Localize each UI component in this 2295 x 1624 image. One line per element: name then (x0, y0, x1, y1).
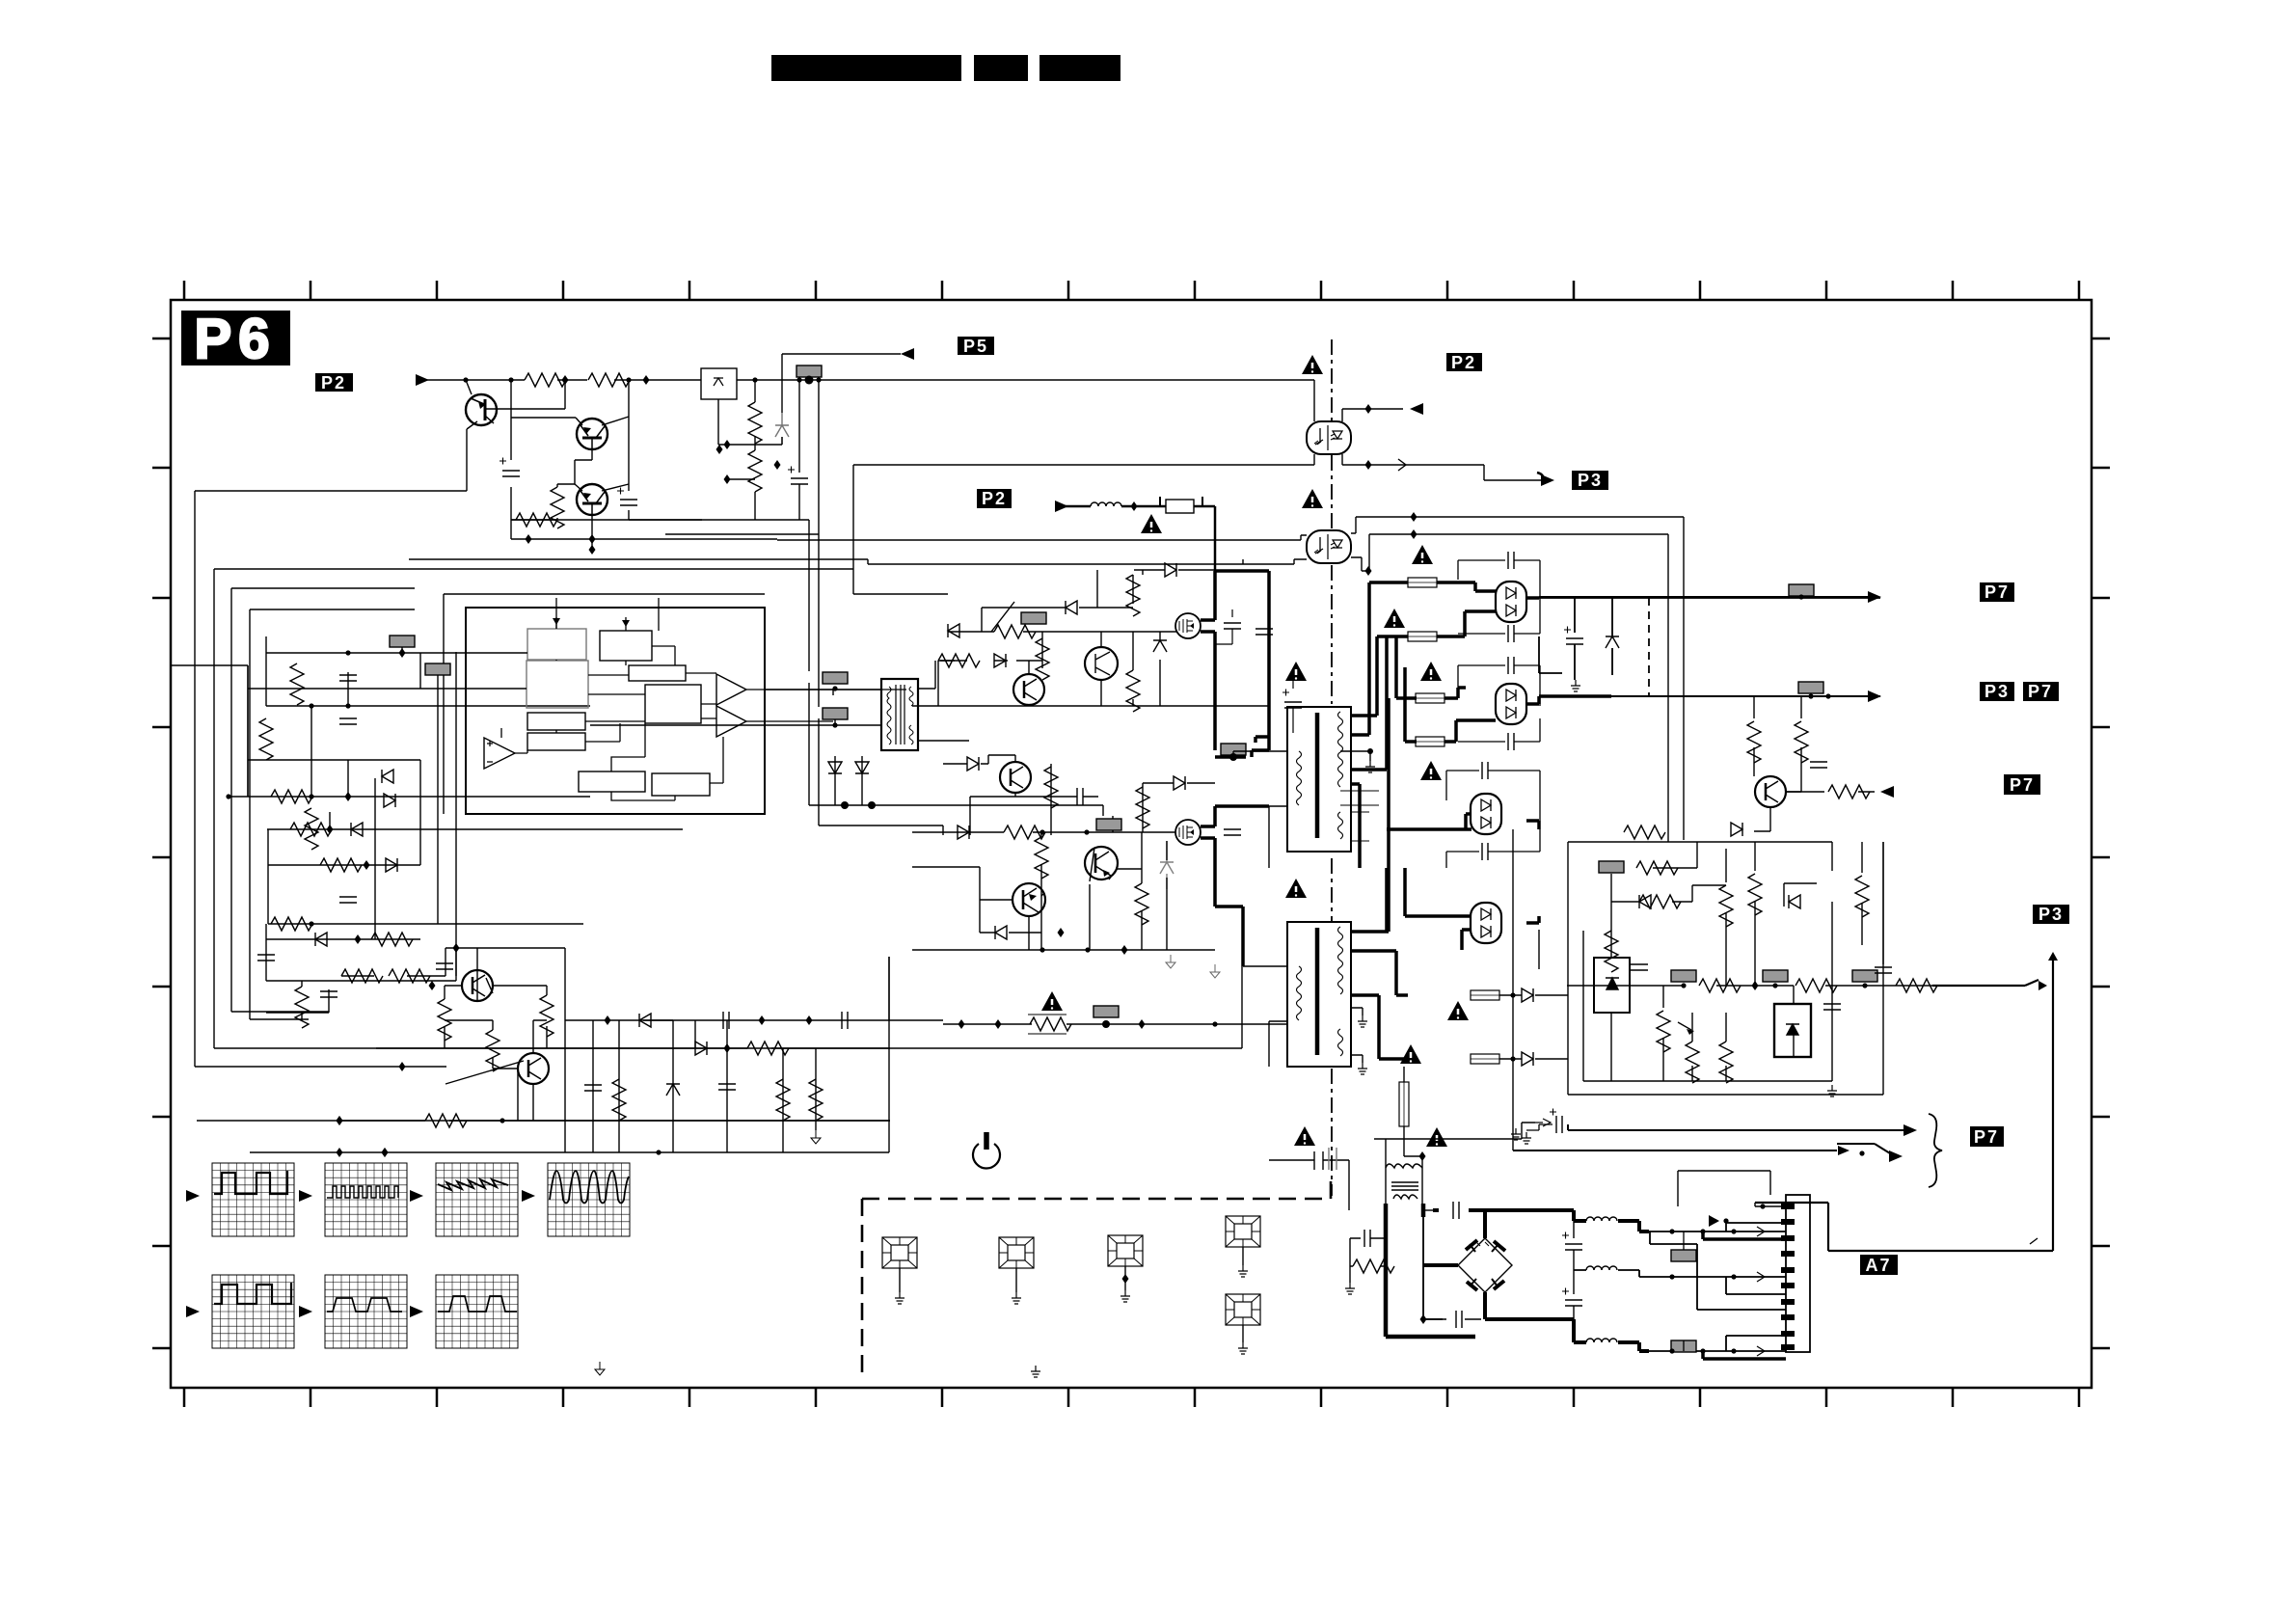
resistor R25 v (1044, 767, 1058, 808)
label P2 mid (977, 489, 1012, 508)
svg-text:P2: P2 (321, 373, 346, 392)
wire to T2 primary with fusible resistor (943, 1021, 1287, 1024)
cap C35 v (718, 1084, 736, 1090)
resistor R13 h (271, 790, 312, 803)
resistor R31 v (540, 995, 553, 1037)
svg-text:P7: P7 (2010, 775, 2035, 795)
resistor R40 v (809, 1079, 823, 1121)
lower output diodes (1499, 829, 1568, 1150)
waveform grid 1 (212, 1163, 294, 1236)
power symbol (973, 1132, 1000, 1168)
chassis Y cap + R (1350, 1238, 1386, 1283)
svg-text:P2: P2 (982, 489, 1007, 508)
diode D36 (995, 926, 1007, 939)
fuse F33 (1416, 737, 1444, 746)
gate drive upper network wires (912, 570, 1269, 706)
svg-text:P3: P3 (1578, 471, 1603, 490)
resistor R41 v (1747, 721, 1761, 763)
comparator T1 (716, 674, 746, 705)
transistor Q20 (1013, 674, 1044, 705)
svg-text:P7: P7 (1974, 1127, 1999, 1147)
resistor R35 h (389, 969, 430, 983)
resistor R39 v (776, 1079, 790, 1121)
caps and diode between rails (1566, 638, 1583, 644)
vertical x=652 (629, 380, 702, 520)
resistor R33 h (425, 1114, 467, 1127)
isolation dashed line (1331, 339, 1333, 1196)
ground symbols at transformer (1365, 761, 1375, 772)
diode D34 (1731, 823, 1742, 836)
light zener D35 (1160, 841, 1174, 889)
label P3 P7 (1980, 682, 2014, 701)
gray box G6 (823, 672, 848, 684)
resistor R23 v (1126, 575, 1140, 616)
diode D27 (967, 757, 979, 771)
dual diode U33 (1471, 903, 1501, 943)
lower drive cluster wires (912, 832, 1215, 950)
transformer T5401 (1287, 707, 1351, 852)
resistor R4 horiz (516, 513, 557, 527)
label P7 brace (1970, 1126, 2004, 1147)
cap C23 on bus (1255, 629, 1273, 635)
junction dots (309, 703, 313, 708)
fuse F31 (1408, 632, 1437, 641)
diode D22 (1066, 601, 1077, 614)
left column horizontals (229, 653, 683, 981)
label P3 lower (2033, 905, 2069, 924)
diode D31 (695, 1042, 707, 1055)
warning triangle (1041, 991, 1063, 1011)
electrolytic C24 (1284, 702, 1302, 708)
bottom bus diamonds (382, 1148, 389, 1157)
standby transformer T5403 (1386, 1164, 1422, 1204)
block b9 (652, 773, 710, 796)
spark gap SG5 (1226, 1294, 1260, 1325)
resistor R14 h (290, 823, 332, 836)
diode D26 (1165, 563, 1176, 577)
resistor R42 v (1795, 721, 1808, 763)
resistor R28 v (1035, 837, 1048, 879)
wire top pin from P3 route (1678, 1171, 1786, 1206)
inductor L51 (1586, 1266, 1617, 1270)
waveform grid 2 (325, 1163, 407, 1236)
cap + gnd before arrow (1556, 1116, 1562, 1133)
arrows inside IC (553, 618, 560, 625)
fuse F35 (1471, 1054, 1499, 1064)
optocoupler U3 (1307, 530, 1351, 563)
gray box G11 (1093, 1006, 1119, 1017)
transistor Q31 (518, 1053, 549, 1084)
transistor Q21 (1085, 647, 1118, 680)
resistor R2 (588, 373, 630, 387)
ground at regulator (1827, 1085, 1837, 1096)
brace (1929, 1114, 1942, 1187)
snubber feedback rails (341, 948, 565, 1020)
resistor R12 (305, 808, 318, 850)
spark gap SG2 (999, 1237, 1034, 1268)
waveform grid 6 (325, 1275, 407, 1348)
cap C32 light (723, 1012, 729, 1029)
block b6 (527, 713, 585, 730)
gray box F1 (796, 365, 822, 377)
opto1 wires (853, 380, 1543, 594)
block b4 (629, 665, 686, 681)
capacitor C1 (502, 471, 520, 476)
capacitor C11 (339, 718, 357, 724)
T5400 input wires (590, 661, 969, 805)
svg-text:A7: A7 (1865, 1256, 1891, 1275)
big dots on bus (841, 801, 849, 809)
transistor Q3 (577, 484, 607, 515)
resistor R11 (259, 718, 273, 760)
transistor Q1 (466, 394, 497, 425)
diode D41 (1522, 1052, 1533, 1066)
zener D32 v (666, 1084, 680, 1096)
warning triangle near fuse (1141, 514, 1162, 533)
Q2 (511, 417, 629, 484)
waveform grid 7 (436, 1275, 518, 1348)
opto2 wires (665, 517, 1684, 842)
block b3 (526, 661, 588, 708)
cap C33 (842, 1012, 848, 1029)
junction dots on rail (463, 375, 821, 484)
electrolytic C50 (1565, 1244, 1582, 1250)
resistor R37 h (747, 1042, 789, 1055)
resistor R38 v (612, 1079, 626, 1121)
bridge connections (1423, 1210, 1504, 1319)
primary connections T5401 (1233, 751, 1287, 868)
transformer T5400 (881, 679, 918, 750)
transistor Q25 (1085, 847, 1118, 880)
IC feed rectangle outer (444, 594, 765, 814)
transformer T5402 (1287, 922, 1351, 1067)
diode D33 v (1606, 636, 1619, 648)
svg-text:P6: P6 (195, 308, 277, 370)
diode D13 (386, 858, 397, 872)
caps on rectifier ellipses (1508, 552, 1514, 569)
loop wire L5 vertical from border (171, 665, 248, 797)
block b1 (527, 629, 586, 660)
svg-text:P7: P7 (2028, 682, 2053, 701)
vertical bus x=922 right edge of bottom bus (888, 957, 890, 1152)
comparator T2 (716, 706, 746, 737)
diode D24 (994, 654, 1006, 667)
resistor R34 h on y1012 (341, 969, 383, 983)
loop wire L2 (214, 569, 1242, 1048)
warning triangles (1302, 355, 1323, 374)
wire from fuse to transformer (1374, 1067, 1535, 1168)
MOSFET Q24 (1175, 820, 1201, 845)
resistor R15 h (320, 858, 362, 872)
cap C34 v (584, 1085, 602, 1091)
gray boxes (1599, 861, 1624, 873)
gray box G3 (425, 663, 450, 675)
output wires to connector (1649, 1223, 1786, 1351)
dual diode U31 (1496, 684, 1526, 724)
Y-capacitor across barrier (1269, 1148, 1349, 1210)
MOSFET Q22 (1175, 613, 1201, 638)
label P7 first (1980, 582, 2014, 602)
zener box network (718, 380, 782, 520)
diode D29 (1174, 776, 1185, 790)
cap C30 (320, 991, 337, 997)
zener box D1 (701, 368, 737, 399)
gray box G9 (1096, 819, 1121, 830)
label P3 upper (1572, 471, 1608, 490)
resistor R26 h (1004, 826, 1045, 839)
wire P5 stub (782, 353, 901, 355)
R3 link (557, 484, 575, 520)
spark gap SG1 (882, 1237, 917, 1268)
ground mid (595, 1362, 605, 1375)
thick branch stubs (1703, 1232, 1786, 1359)
loop wire L3 (231, 588, 415, 1012)
warning triangle 2 (1426, 1127, 1447, 1147)
resistor R6 vert (748, 450, 762, 492)
resistor R10 (290, 663, 304, 705)
arrow to P3 (1541, 474, 1554, 486)
long mid wires (409, 559, 868, 564)
diamonds (958, 1019, 965, 1029)
resistor R32 v (486, 1030, 499, 1071)
wire P2 to opto1 main top rail (418, 379, 1314, 381)
thin output rails (1539, 598, 1880, 696)
open grounds (1166, 955, 1175, 968)
bottom ground bus (250, 1121, 890, 1152)
block b5 (645, 685, 701, 723)
loop wire L1 (195, 491, 446, 1067)
resistor R1 (525, 373, 566, 387)
inductor L20 (1091, 502, 1121, 506)
cap C22 (1224, 829, 1241, 835)
transistor Q40 right (1755, 776, 1786, 807)
cap C40 v (1810, 762, 1827, 768)
left column verticals (248, 636, 456, 981)
resistor R36 v small (295, 987, 309, 1028)
ground bus (511, 520, 809, 539)
warning triangle (1294, 1126, 1315, 1146)
connector A7 body (1781, 1195, 1810, 1352)
svg-text:P7: P7 (1984, 582, 2010, 602)
emitter arrow (591, 539, 593, 547)
svg-text:P3: P3 (1984, 682, 2010, 701)
resistor R3 vert (551, 487, 564, 528)
resistor R16 h (271, 917, 312, 931)
resistor R21 h (938, 654, 980, 667)
transistor Q23 (1000, 762, 1031, 793)
resistor chain on P3 wire (1699, 979, 1741, 992)
MOSFET Q22 drain/source thick (1201, 571, 1246, 750)
open ground arrow (811, 1130, 821, 1144)
resistor R17 h (371, 933, 413, 946)
P7 arrow rail 2 (P3P7) (1611, 695, 1869, 697)
diode D20 vert (828, 762, 842, 773)
wires rectifier group top (1437, 582, 1611, 950)
diodes (1639, 895, 1651, 908)
dual diode U32 (1471, 794, 1501, 834)
thick standby bars (1386, 1204, 1475, 1337)
svg-text:P5: P5 (963, 337, 988, 356)
label P2 top-left (315, 373, 353, 392)
supply rail verticals to gate area (809, 588, 1103, 835)
spark gap SG4 (1226, 1216, 1260, 1247)
svg-text:P2: P2 (1451, 353, 1476, 372)
capacitor C10 (339, 675, 357, 681)
label P7 third (2004, 774, 2040, 795)
IC U10 outline (466, 608, 765, 814)
gray box G7 (823, 708, 848, 719)
ground bus diamonds (589, 534, 596, 544)
capacitor C12 (257, 955, 275, 961)
waveform grid 3 (436, 1163, 518, 1236)
cap C21 h (1077, 788, 1083, 805)
transistor Q2 (577, 419, 607, 449)
inductor L52 (1586, 1339, 1617, 1342)
P7 arrow rail 1 (1539, 596, 1869, 598)
Q3 (575, 484, 629, 539)
resistor R20 (994, 625, 1036, 638)
top ticks (152, 281, 2110, 1407)
dashed enclosure (862, 1178, 1331, 1378)
resistors region H (1636, 861, 1678, 875)
diode D11 (384, 794, 395, 807)
diode D21 vert (855, 762, 869, 773)
diode D2 light zener (775, 413, 789, 445)
arrow P2 in (416, 374, 429, 386)
cap C13 (339, 897, 357, 903)
resistor R27 v (1136, 787, 1149, 828)
input marker diode (1709, 1215, 1719, 1227)
TL431 U41 (1774, 1004, 1811, 1057)
arrow to P5 (901, 348, 914, 360)
zener D25 (1153, 640, 1167, 652)
Q40 network (1754, 696, 1875, 831)
primary connections T5402 (1243, 907, 1287, 1067)
diode D40 (1522, 988, 1533, 1002)
thick primary bus (1215, 571, 1269, 757)
label P5 (958, 337, 994, 356)
waveform grid 4 (548, 1163, 630, 1236)
capacitor C2 (620, 500, 637, 505)
label P6 (181, 308, 290, 370)
IC internal wires (501, 598, 906, 800)
bridge rectifier D5520 (1458, 1238, 1512, 1292)
transistor Q26 (1012, 883, 1045, 916)
gray box G2 (390, 636, 415, 647)
P3 lower feedback wire (1755, 957, 2053, 1251)
fuse F30 (1408, 578, 1437, 587)
diode D12 (351, 823, 363, 836)
dual diode U30 (1496, 582, 1526, 622)
fuse F20 (1160, 497, 1202, 513)
label A7 (1860, 1255, 1898, 1275)
block b7 (527, 733, 585, 750)
spark gap SG3 (1108, 1235, 1143, 1266)
caps (1631, 964, 1648, 970)
block b8 (579, 771, 645, 792)
diode D28 (958, 826, 969, 839)
svg-text:P3: P3 (2038, 905, 2064, 924)
diode D23 (948, 624, 959, 637)
wires around IC left (402, 647, 527, 689)
outer rect of regulator area (1568, 842, 1883, 1095)
junction dots (1669, 1229, 1674, 1233)
P2 mid rail with choke and fuse (1056, 506, 1215, 571)
electrolytic C51 (1565, 1300, 1582, 1306)
diamond (724, 1043, 731, 1053)
junction dots cluster (453, 943, 460, 953)
gate drive lower network wires (912, 755, 1215, 835)
junction dots (1681, 983, 1686, 988)
gray box G8 (1021, 612, 1046, 624)
thick secondary bundle verticals (1351, 582, 1471, 1059)
T5401 aux winding lines right (1340, 791, 1379, 841)
vertical fuse (1399, 1082, 1409, 1126)
capacitor C3 electrolytic (791, 478, 808, 484)
label P2 right (1446, 353, 1482, 372)
waveform grid 5 (212, 1275, 294, 1348)
fusible resistor R50 (1030, 1017, 1071, 1031)
diamonds on y1058 (759, 1015, 766, 1025)
fuse F32 (1416, 693, 1444, 703)
block b2 (600, 631, 652, 661)
vertical x=530 chain (511, 380, 557, 539)
transistor Q30 (462, 970, 493, 1001)
arrow chevrons into pins (1757, 1227, 1765, 1356)
border frame (171, 300, 2092, 1388)
gray boxes on outputs (1671, 1250, 1696, 1261)
warning triangles around transformers (1285, 662, 1307, 681)
loop wire L4 (250, 609, 415, 1019)
fuse F34 (1471, 990, 1499, 1000)
resistor R24 v (1126, 670, 1140, 712)
diode D10 (382, 770, 393, 783)
junction dots under gray boxes (832, 686, 837, 690)
resistor R5 vert below zener box (748, 402, 762, 444)
TL431 U40 (1594, 958, 1630, 1013)
resistor R30 v (438, 999, 451, 1041)
cap C20 beside mosfet (1224, 623, 1241, 629)
filter caps and chokes (1485, 1210, 1649, 1351)
optocoupler U2 (1307, 421, 1351, 454)
Q1 base/collector/emitter (195, 380, 565, 491)
diode D14 (315, 933, 327, 946)
resistor R43 h (1828, 785, 1870, 798)
op-amp U11 (484, 738, 515, 769)
cap C31 (436, 963, 453, 969)
inductor L50 (1586, 1217, 1617, 1221)
potentiometer arrow on R (1678, 1022, 1691, 1030)
junctions (1058, 928, 1065, 937)
diode D30 (639, 1014, 651, 1027)
gray box G10 (1221, 744, 1246, 755)
resistor R29 v (1135, 883, 1148, 925)
resistor R22 v (1036, 638, 1049, 680)
